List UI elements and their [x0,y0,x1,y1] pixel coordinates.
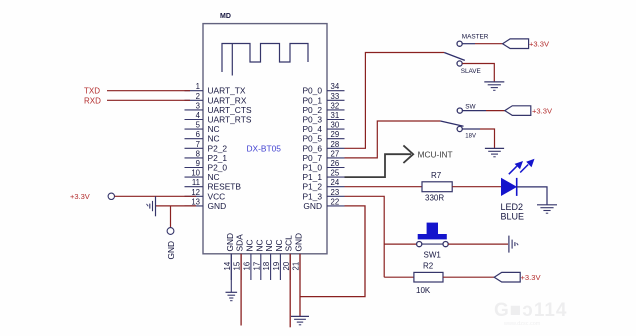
pin 14 GND [223,233,235,280]
wire pin24 P1_2 to R7 [345,186,423,188]
svg-text:P0_0: P0_0 [302,86,322,96]
svg-text:26: 26 [331,159,340,168]
svg-text:21: 21 [292,262,301,271]
svg-text:30: 30 [331,121,340,130]
svg-text:18V: 18V [465,133,476,139]
svg-text:GND: GND [303,201,322,211]
svg-text:P0_3: P0_3 [302,115,322,125]
svg-text:www.dzsc.com: www.dzsc.com [503,321,541,327]
wire pin15 SDA going down [240,254,242,326]
MCU-INT arrowhead [403,145,413,163]
pin 17 NC [252,239,264,280]
svg-text:7: 7 [196,140,200,149]
pin 7 P2_2 [185,140,228,154]
svg-text:MASTER: MASTER [462,34,489,41]
GND net label circle [167,228,174,235]
svg-text:+3.3V: +3.3V [532,106,553,115]
pin 9 P2_0 [185,159,228,173]
svg-text:17: 17 [252,262,261,271]
svg-text:UART_RX: UART_RX [208,95,247,105]
LED2 diode symbol [502,178,517,196]
svg-text:24: 24 [331,178,340,187]
pushbutton SW1 [417,223,449,260]
svg-text:SW1: SW1 [424,251,442,260]
wire pin14 to ground [230,254,232,292]
svg-text:330R: 330R [425,193,444,202]
svg-text:23: 23 [331,188,340,197]
pin 32 P0_2 [302,101,344,115]
wire to SW1 left contact [384,243,417,245]
wire TXD to pin1 [107,90,190,92]
svg-text:VCC: VCC [208,191,226,201]
pin 26 P1_0 [302,159,344,173]
svg-text:15: 15 [233,261,242,270]
wire bottom GND bus to pin22 [300,206,365,297]
svg-text:GND: GND [208,201,227,211]
svg-text:NC: NC [264,239,274,251]
svg-text:4: 4 [196,111,201,120]
svg-text:12: 12 [191,188,200,197]
wire pin13 GND to left ground [156,205,197,207]
svg-text:UART_CTS: UART_CTS [208,105,252,115]
wire +3.3V to pin12 VCC [115,195,197,197]
wire pin20 SCL going down [289,254,291,327]
svg-text:8: 8 [196,149,200,158]
svg-text:19: 19 [272,262,281,271]
pin 11 RESETB [185,178,242,192]
wire lower contact to ground [462,128,480,130]
svg-text:10K: 10K [416,286,431,295]
PCB antenna meander [222,44,308,73]
svg-text:25: 25 [331,169,340,178]
pin 31 P0_3 [302,111,344,125]
svg-text:P0_6: P0_6 [302,143,322,153]
pin 20 SCL [282,235,294,280]
svg-text:1: 1 [196,82,200,91]
switch S2 lower contact [457,126,462,131]
svg-text:SLAVE: SLAVE [461,68,481,75]
power node circle [108,193,114,199]
wire to R2 [384,276,414,278]
LED2 light arrows [509,159,535,175]
wire SW contact to +3.3V tag [462,110,486,112]
svg-text:RESETB: RESETB [208,182,242,192]
svg-text:22: 22 [331,197,340,206]
svg-text:P0_2: P0_2 [302,105,322,115]
svg-text:11: 11 [192,178,200,187]
svg-text:34: 34 [331,82,340,91]
svg-text:GND: GND [294,233,304,252]
switch S1 lever [444,53,465,61]
svg-text:NC: NC [208,134,220,144]
svg-text:5: 5 [196,121,201,130]
svg-text:33: 33 [331,92,340,101]
svg-text:9: 9 [196,159,200,168]
wire pin25 P1_1 to MCU-INT arrow [345,154,412,177]
svg-text:R7: R7 [431,171,442,180]
wire pin28 P0_6 to switch S1 common [345,53,445,149]
svg-text:20: 20 [282,261,291,270]
pin 33 P0_1 [302,92,344,106]
svg-text:+3.3V: +3.3V [521,273,542,282]
svg-text:P0_5: P0_5 [302,134,322,144]
ground (below LED2) [537,205,557,213]
pin 23 P1_3 [302,188,344,202]
svg-text:P2_0: P2_0 [208,163,228,173]
switch S1 MASTER contact [457,41,462,46]
wire RXD to pin2 [107,99,190,101]
pin 8 P2_1 [185,149,228,163]
ground (right of SW1, rotated) [509,236,518,253]
svg-text:P1_3: P1_3 [302,191,322,201]
svg-text:SCL: SCL [284,235,294,252]
ground (below S2) [485,148,504,156]
svg-text:P2_2: P2_2 [208,143,228,153]
pin 28 P0_6 [302,140,344,154]
svg-text:DX-BT05: DX-BT05 [247,144,282,154]
wire R7 to LED2 anode [452,186,502,188]
svg-text:14: 14 [223,261,232,270]
wire LED2 cathode to ground [517,187,547,205]
svg-text:RXD: RXD [84,96,101,105]
svg-text:P0_4: P0_4 [302,124,322,134]
IC module U-MD DX-BT05 body [203,24,327,254]
pin 34 P0_0 [302,82,344,96]
svg-text:+3.3V: +3.3V [70,192,90,201]
svg-text:TXD: TXD [84,87,100,96]
svg-text:GND: GND [225,233,235,252]
pin 1 UART_TX [185,82,246,96]
svg-text:NC: NC [254,239,264,251]
power tag +3.3V (S2) [505,106,553,116]
svg-text:29: 29 [331,130,340,139]
pin 25 P1_1 [302,169,344,183]
svg-text:NC: NC [208,172,220,182]
svg-text:MCU-INT: MCU-INT [418,149,453,159]
wire R2 to +3.3V tag [443,276,494,278]
switch S2 lever [440,121,463,126]
svg-text:UART_RTS: UART_RTS [208,115,252,125]
svg-text:P2_1: P2_1 [208,153,228,163]
wire pin23 P1_3 down to SW1 and R2 [345,196,385,277]
svg-text:NC: NC [274,239,284,251]
pin 30 P0_4 [302,121,344,135]
pin 18 NC [262,239,274,280]
svg-text:31: 31 [331,111,340,120]
svg-text:BLUE: BLUE [501,211,525,221]
svg-text:3: 3 [196,101,200,110]
wire pin27 P0_7 to switch S2 common [345,121,441,158]
pin 19 NC [272,239,284,280]
svg-text:27: 27 [331,149,340,158]
ground (rotated, on VCC/GND rail) [147,196,156,216]
ground (below pin14) [226,292,238,300]
svg-text:NC: NC [208,124,220,134]
svg-text:P1_2: P1_2 [302,182,322,192]
pin 6 NC [185,130,220,144]
switch S2 SW contact [457,108,462,113]
watermark (decorative) [494,300,567,327]
wire MASTER contact to +3.3V tag [462,43,475,45]
svg-text:+3.3V: +3.3V [529,40,550,49]
svg-text:G■ɔ114: G■ɔ114 [494,300,567,321]
svg-text:GND: GND [166,241,176,260]
svg-text:13: 13 [191,197,200,206]
svg-text:P1_1: P1_1 [302,172,322,182]
svg-text:28: 28 [331,140,340,149]
pin 3 UART_CTS [185,101,252,115]
svg-text:32: 32 [331,101,340,110]
wire pin21 GND down to ground [299,254,301,317]
pin 16 NC [243,239,255,280]
switch S1 SLAVE contact [457,61,462,66]
pin 15 SDA [233,234,245,280]
svg-text:18: 18 [262,262,271,271]
ground (below pin21) [291,316,309,324]
svg-text:P0_1: P0_1 [302,95,322,105]
svg-text:SW: SW [465,103,476,110]
power tag +3.3V (S1) [503,39,550,49]
pin 2 UART_RX [185,92,247,106]
svg-text:10: 10 [191,169,200,178]
pin 5 NC [185,121,220,135]
svg-text:NC: NC [244,239,254,251]
svg-text:P0_7: P0_7 [302,153,322,163]
wire SLAVE contact to ground [462,64,494,82]
pin 12 VCC [185,188,226,202]
svg-text:SDA: SDA [235,234,245,252]
ground (below S1 SLAVE) [484,82,504,90]
wire down to GND net label [170,206,172,228]
wire SW1 right contact to ground [448,243,508,245]
svg-text:UART_TX: UART_TX [208,86,246,96]
svg-text:16: 16 [243,262,252,271]
pin 27 P0_7 [302,149,344,163]
svg-text:P1_0: P1_0 [302,163,322,173]
svg-text:MD: MD [220,13,231,20]
power tag +3.3V (R2) [494,272,541,282]
pin 21 GND [292,233,304,280]
pin 13 GND [185,197,227,211]
pin 22 GND [303,197,344,211]
pin 10 NC [185,169,220,183]
svg-text:R2: R2 [423,262,434,271]
svg-text:6: 6 [196,130,200,139]
resistor R7 [422,171,452,202]
pin 24 P1_2 [302,178,344,192]
svg-text:2: 2 [196,92,200,101]
pin 29 P0_5 [302,130,344,144]
pin 4 UART_RTS [185,111,252,125]
resistor R2 [414,262,443,295]
